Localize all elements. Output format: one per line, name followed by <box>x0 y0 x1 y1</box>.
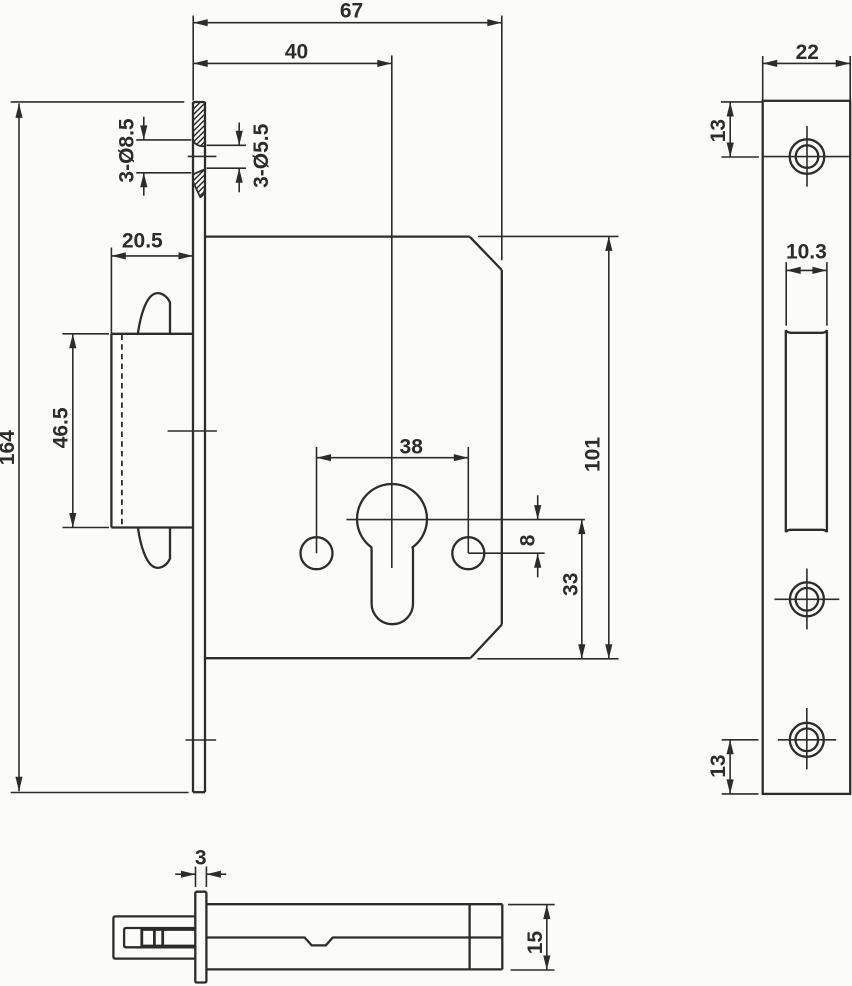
top hook <box>138 293 170 333</box>
svg-text:10.3: 10.3 <box>786 241 827 264</box>
svg-text:15: 15 <box>524 931 547 955</box>
faceplate top edge <box>193 102 205 104</box>
lock case top edge <box>205 235 470 237</box>
svg-text:13: 13 <box>707 119 730 142</box>
svg-text:38: 38 <box>400 435 424 458</box>
dim 8 <box>537 495 539 519</box>
svg-text:46.5: 46.5 <box>49 407 72 448</box>
bolt side view: hook stack <box>142 930 196 947</box>
bolt slot in faceplate <box>786 330 827 532</box>
svg-text:3: 3 <box>195 847 207 870</box>
bottom-right chamfer <box>470 625 501 659</box>
case mid parting line with notch <box>206 938 502 946</box>
svg-text:3-Ø8.5: 3-Ø8.5 <box>115 118 138 183</box>
20.5 left extension (merges into bolt left edge) <box>110 248 112 334</box>
countersunk hole section: upper hatched region <box>193 102 205 146</box>
case right edge <box>501 270 503 625</box>
left fixing hole <box>301 537 333 569</box>
dim 67 top <box>193 22 502 24</box>
faceplate front outline <box>763 101 851 794</box>
dim 164 left <box>18 103 20 791</box>
cylinder horizontal centerline <box>346 519 585 521</box>
middle screw hole <box>790 582 824 616</box>
faceplate right edge <box>204 102 206 792</box>
svg-text:3-Ø5.5: 3-Ø5.5 <box>250 123 273 188</box>
cylinder vertical centerline <box>391 55 393 568</box>
bolt side view: outer plate <box>113 916 195 958</box>
hook bolt rectangle <box>110 334 112 528</box>
svg-text:8: 8 <box>516 534 539 546</box>
svg-text:40: 40 <box>285 41 308 64</box>
svg-text:20.5: 20.5 <box>122 230 163 253</box>
dim 13 top <box>729 102 731 157</box>
dim 3 <box>175 873 195 875</box>
svg-text:13: 13 <box>707 754 730 777</box>
extension of top edge toward 101 dim <box>478 235 618 237</box>
extension line at faceplate front x=193 <box>192 16 194 101</box>
svg-text:33: 33 <box>559 573 582 596</box>
top-right chamfer <box>470 237 502 270</box>
faceplate tick at bolt center <box>168 430 217 432</box>
extension of bottom edge toward 33/101 dims <box>477 658 618 660</box>
dim 3-dia8.5 arrows <box>143 117 145 140</box>
hole dia 5.5 extension lines (right face) <box>207 144 246 146</box>
164 top extension <box>11 101 185 103</box>
bottom view case outline <box>206 903 502 905</box>
bolt side view: inner slot <box>124 928 195 947</box>
case inner vertical line <box>468 904 470 969</box>
hole dia 8.5 extension lines (left face) <box>136 139 191 141</box>
svg-text:22: 22 <box>796 41 819 64</box>
right fixing hole <box>452 537 484 569</box>
dim 13 bottom <box>729 740 731 794</box>
dim 38 <box>317 457 469 459</box>
164 bottom extension <box>11 792 189 794</box>
dim 22 <box>763 62 851 64</box>
countersunk hole section: lower hatched region <box>193 169 205 197</box>
extension line at case right edge x=502 <box>501 16 503 261</box>
svg-text:101: 101 <box>581 437 604 472</box>
faceplate bottom edge <box>193 791 205 793</box>
svg-text:67: 67 <box>340 0 363 23</box>
bottom view faceplate bar <box>195 892 206 983</box>
euro cylinder profile hole <box>357 484 427 624</box>
case bottom edge <box>205 657 470 659</box>
dim 46.5 <box>72 334 74 528</box>
dim 3-dia5.5 arrows <box>238 123 240 146</box>
dim 15 <box>546 905 548 970</box>
bottom hook <box>138 528 170 568</box>
faceplate (sectioned) left edge <box>192 102 194 792</box>
dim 101 <box>608 236 610 658</box>
dim 33 <box>581 520 583 659</box>
dim 10.3 <box>786 269 827 271</box>
dim 40 <box>193 62 392 64</box>
bottom screw hole <box>790 723 824 757</box>
dim 20.5 <box>111 255 193 257</box>
faceplate tick lower <box>186 739 217 741</box>
svg-text:164: 164 <box>0 430 19 465</box>
bolt dashed line <box>121 335 123 528</box>
hole centerline tick <box>188 155 217 157</box>
top screw hole <box>790 139 825 174</box>
